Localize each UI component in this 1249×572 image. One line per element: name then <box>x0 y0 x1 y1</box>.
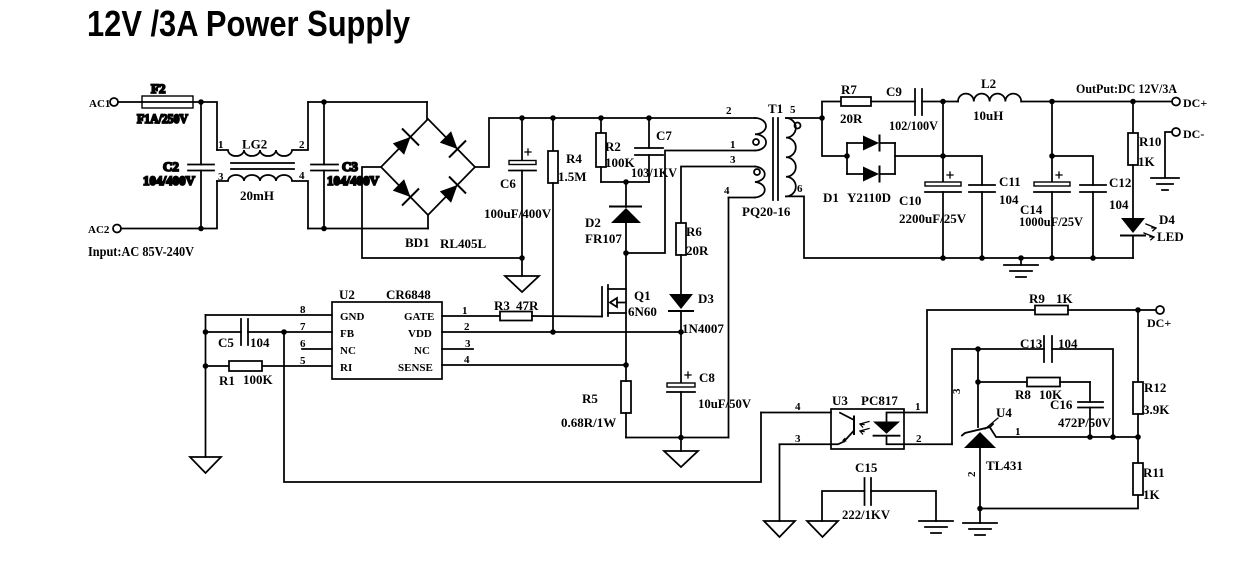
ground secondary under DC- <box>1151 178 1179 190</box>
svg-text:R8: R8 <box>1015 387 1031 402</box>
terminal DC+ feedback <box>1147 306 1171 330</box>
pin 1 opto anode wire <box>904 401 927 413</box>
opto light arrows <box>860 422 869 435</box>
wire FB down and across to opto collector <box>284 332 761 482</box>
pin 4 SENSE wire <box>442 354 626 366</box>
node C14 mid junction <box>1049 153 1055 159</box>
opto-coupler U3 PC817 <box>831 393 904 449</box>
capacitor C9 102/100V <box>886 84 943 133</box>
resistor R8 10K <box>978 378 1090 403</box>
svg-text:R3: R3 <box>494 298 510 313</box>
svg-text:AC2: AC2 <box>88 224 110 236</box>
node C16 bottom <box>1087 434 1093 440</box>
transformer primary winding pins 2-1 <box>726 105 766 151</box>
pin 2 VDD wire <box>442 321 681 333</box>
svg-text:4: 4 <box>299 170 305 182</box>
pin 4 opto collector wire <box>761 401 831 413</box>
svg-text:T1: T1 <box>768 101 783 116</box>
node C14 bottom <box>1049 255 1055 261</box>
svg-text:C10: C10 <box>899 193 921 208</box>
capacitor C10 2200uF/25V electrolytic <box>899 172 967 258</box>
capacitor C15 222/1KV Y-cap <box>822 460 936 522</box>
svg-text:R1: R1 <box>219 373 235 388</box>
svg-text:LED: LED <box>1157 229 1184 244</box>
capacitor C8 10uF/50V electrolytic <box>667 332 752 438</box>
capacitor C5 104 <box>206 319 285 350</box>
svg-text:10uF/50V: 10uF/50V <box>698 396 752 411</box>
svg-text:103/1KV: 103/1KV <box>631 165 678 180</box>
capacitor C3 104/400V <box>311 102 380 229</box>
resistor R6 20R <box>676 223 709 294</box>
svg-text:PQ20-16: PQ20-16 <box>742 204 791 219</box>
svg-text:104: 104 <box>1058 336 1078 351</box>
svg-text:RI: RI <box>340 362 352 374</box>
svg-text:1000uF/25V: 1000uF/25V <box>1019 214 1084 229</box>
svg-text:4: 4 <box>795 401 801 413</box>
wire T1 pin4 down to primary ground rail <box>728 198 730 438</box>
svg-text:100K: 100K <box>243 372 274 387</box>
bridge diode top-left <box>393 129 419 155</box>
pin 1 GATE wire with resistor R3 47R <box>442 298 602 321</box>
svg-text:U3: U3 <box>832 393 848 408</box>
svg-text:NC: NC <box>414 345 430 357</box>
svg-text:3.9K: 3.9K <box>1143 402 1170 417</box>
node pin5 junction <box>819 115 825 121</box>
wire TL431 cathode vertical <box>977 349 979 427</box>
node C10 bottom <box>940 255 946 261</box>
svg-text:20R: 20R <box>686 243 709 258</box>
svg-text:C6: C6 <box>500 176 516 191</box>
svg-text:NC: NC <box>340 345 356 357</box>
svg-text:VDD: VDD <box>408 328 432 340</box>
svg-text:3: 3 <box>795 433 801 445</box>
node C8 bottom / primary ground rail <box>678 435 684 441</box>
wire opto cathode up to TL431 cathode line <box>952 349 1044 444</box>
svg-text:R12: R12 <box>1144 380 1166 395</box>
svg-text:C2: C2 <box>163 159 179 174</box>
svg-text:D3: D3 <box>698 291 714 306</box>
svg-text:222/1KV: 222/1KV <box>842 507 891 522</box>
ground primary under C6 <box>505 258 539 292</box>
svg-text:CR6848: CR6848 <box>386 287 431 302</box>
diode D3 1N4007 <box>669 291 724 336</box>
svg-text:20R: 20R <box>840 111 863 126</box>
node rectified/C10/C11 <box>940 153 946 159</box>
choke LG2 20mH top winding pins 1-2 <box>217 102 308 156</box>
wire R5/C8 ground rail <box>626 437 729 439</box>
svg-text:104: 104 <box>1109 197 1129 212</box>
svg-text:12V /3A Power Supply: 12V /3A Power Supply <box>87 3 410 44</box>
capacitor C11 104 <box>943 156 1021 258</box>
diode D1 Y2110D dual rectifier <box>822 118 943 205</box>
svg-text:1K: 1K <box>1056 291 1074 306</box>
capacitor C12 104 <box>1052 156 1131 258</box>
resistor R1 100K <box>206 361 274 388</box>
node R4 top <box>550 115 556 121</box>
pin 5 RI wire <box>262 355 332 367</box>
ground secondary under TL431 <box>963 509 997 536</box>
svg-text:RL405L: RL405L <box>440 236 487 251</box>
opto LED <box>873 413 904 445</box>
svg-text:C8: C8 <box>699 370 715 385</box>
ground primary under C15 left <box>807 521 838 537</box>
svg-text:R4: R4 <box>566 151 582 166</box>
wire TL431 anode down <box>979 448 981 509</box>
wire AC2 to C2 bottom <box>121 228 201 230</box>
wire snubber bottom joining R2 and C7 <box>601 181 649 183</box>
node C7 top <box>646 115 652 121</box>
terminal AC1 <box>89 98 118 110</box>
svg-text:104/400V: 104/400V <box>327 173 380 188</box>
svg-text:C13: C13 <box>1020 336 1043 351</box>
wire AC1 to fuse <box>118 101 142 103</box>
terminal AC2 <box>88 224 121 236</box>
svg-text:5: 5 <box>790 104 796 116</box>
svg-text:4: 4 <box>464 354 470 366</box>
node C11 bottom <box>979 255 985 261</box>
svg-text:R5: R5 <box>582 391 598 406</box>
node TL431 anode rail <box>977 506 983 512</box>
resistor R7 20R <box>822 82 915 126</box>
node fuse/C2 junction <box>198 99 204 105</box>
ground primary under opto pin3 <box>764 444 795 537</box>
opto phototransistor <box>831 413 854 445</box>
ground secondary under C15 right <box>919 521 953 533</box>
svg-text:R2: R2 <box>605 139 621 154</box>
svg-text:C12: C12 <box>1109 175 1131 190</box>
svg-text:Q1: Q1 <box>634 288 651 303</box>
svg-text:104: 104 <box>999 192 1019 207</box>
svg-text:C11: C11 <box>999 174 1021 189</box>
node C3 top <box>321 99 327 105</box>
svg-text:6: 6 <box>797 183 803 195</box>
svg-text:0.68R/1W: 0.68R/1W <box>561 415 616 430</box>
shunt regulator U4 TL431 <box>951 388 1138 477</box>
svg-text:1: 1 <box>462 305 468 317</box>
capacitor C7 103/1KV <box>631 118 678 182</box>
capacitor C6 100uF/400V electrolytic <box>484 118 552 258</box>
svg-text:2: 2 <box>299 139 305 151</box>
svg-text:D2: D2 <box>585 215 601 230</box>
svg-text:100uF/400V: 100uF/400V <box>484 206 552 221</box>
svg-text:C7: C7 <box>656 128 672 143</box>
svg-text:Input:AC 85V-240V: Input:AC 85V-240V <box>88 245 194 260</box>
svg-text:R7: R7 <box>841 82 857 97</box>
svg-text:U2: U2 <box>339 287 355 302</box>
svg-text:10uH: 10uH <box>973 108 1003 123</box>
svg-text:4: 4 <box>724 185 730 197</box>
svg-text:1: 1 <box>1015 426 1021 438</box>
wire rectified node vertical <box>942 102 944 183</box>
ground secondary main <box>1004 258 1038 277</box>
svg-text:104: 104 <box>250 335 270 350</box>
pin 8 GND wire <box>206 304 333 316</box>
svg-text:R11: R11 <box>1143 465 1165 480</box>
node divider REF <box>1135 434 1141 440</box>
svg-text:1: 1 <box>730 139 736 151</box>
choke LG2 bottom winding pins 3-4 <box>217 170 308 229</box>
resistor R2 100K <box>596 118 636 182</box>
svg-text:D1: D1 <box>823 190 839 205</box>
svg-text:7: 7 <box>300 321 306 333</box>
wire output top rail <box>1052 101 1172 103</box>
node C13 right bottom <box>1110 434 1116 440</box>
svg-text:PC817: PC817 <box>861 393 898 408</box>
wire GND net vertical <box>205 315 207 457</box>
transformer T1 PQ20-16 <box>742 101 791 219</box>
wire choke pin4 to AC bottom rail <box>308 228 428 230</box>
node R4 bottom on VDD <box>550 329 556 335</box>
svg-text:DC-: DC- <box>1183 127 1204 141</box>
wire secondary return rail <box>786 196 1133 258</box>
svg-text:GND: GND <box>340 311 365 323</box>
wire anode rail to R11 bottom <box>980 495 1138 509</box>
wire choke pin2 to AC top rail <box>308 101 427 103</box>
node R1 left <box>203 363 209 369</box>
svg-text:AC1: AC1 <box>89 98 110 110</box>
diode D2 FR107 <box>585 182 641 253</box>
node R12 top <box>1135 307 1141 313</box>
terminal DC+ output <box>1172 96 1207 110</box>
fuse F2 F1A/250V <box>137 81 201 126</box>
svg-text:C16: C16 <box>1050 397 1073 412</box>
node C9/L2 junction <box>940 99 946 105</box>
wire T1 pin5 to snubber node <box>786 117 822 119</box>
node snubber to D2 <box>623 179 629 185</box>
svg-text:F2: F2 <box>151 81 165 96</box>
resistor R4 1.5M <box>548 118 587 332</box>
transformer aux winding pins 3-4 <box>724 154 765 198</box>
svg-text:20mH: 20mH <box>240 188 274 203</box>
node C3 bottom <box>321 226 327 232</box>
node FB junction <box>281 329 287 335</box>
svg-text:R6: R6 <box>686 224 702 239</box>
pin 3 NC stub <box>442 338 473 350</box>
svg-text:C3: C3 <box>342 159 358 174</box>
svg-text:1K: 1K <box>1138 154 1156 169</box>
svg-text:8: 8 <box>300 304 306 316</box>
svg-text:3: 3 <box>730 154 736 166</box>
svg-text:C9: C9 <box>886 84 902 99</box>
svg-text:D4: D4 <box>1159 212 1175 227</box>
svg-text:3: 3 <box>218 171 224 183</box>
pin 3 opto emitter wire <box>780 433 832 445</box>
svg-text:2: 2 <box>966 471 978 477</box>
svg-text:3: 3 <box>951 388 963 394</box>
capacitor C2 104/400V <box>143 102 214 229</box>
node C12 bottom <box>1090 255 1096 261</box>
pin 7 FB wire <box>284 321 332 333</box>
node D2 anode / Q1 drain <box>623 250 629 256</box>
pin 6 NC stub <box>300 338 332 350</box>
bridge rectifier BD1 RL405L <box>381 102 487 251</box>
bridge diode bottom-right <box>440 177 466 203</box>
svg-text:1.5M: 1.5M <box>558 169 587 184</box>
svg-text:BD1: BD1 <box>405 235 430 250</box>
svg-text:2: 2 <box>464 321 470 333</box>
svg-text:472P/50V: 472P/50V <box>1058 415 1112 430</box>
wire T1 pin3 to R6 <box>681 167 755 224</box>
svg-text:1: 1 <box>915 401 921 413</box>
svg-text:3: 3 <box>465 338 471 350</box>
node L2 out / C14 top <box>1049 99 1055 105</box>
ground primary under C8 <box>664 438 698 468</box>
svg-text:C15: C15 <box>855 460 878 475</box>
svg-text:DC+: DC+ <box>1147 316 1171 330</box>
svg-text:R10: R10 <box>1139 134 1161 149</box>
node D1 input junction <box>844 153 850 159</box>
node ground tap <box>1018 255 1024 261</box>
node C2 bottom junction <box>198 226 204 232</box>
svg-text:1K: 1K <box>1143 487 1161 502</box>
resistor R12 3.9K <box>1133 310 1170 437</box>
node VDD / D3 cathode / C8 top <box>678 329 684 335</box>
svg-text:6N60: 6N60 <box>628 304 657 319</box>
capacitor C16 472P/50V <box>1050 382 1112 437</box>
bridge diode top-right <box>440 131 466 157</box>
ground primary under R1/C5 <box>190 457 221 473</box>
node R10 top <box>1130 99 1136 105</box>
svg-text:2: 2 <box>916 433 922 445</box>
svg-text:1N4007: 1N4007 <box>682 321 724 336</box>
svg-text:6: 6 <box>300 338 306 350</box>
svg-text:GATE: GATE <box>404 311 434 323</box>
svg-text:2: 2 <box>726 105 732 117</box>
svg-text:C5: C5 <box>218 335 234 350</box>
svg-text:OutPut:DC 12V/3A: OutPut:DC 12V/3A <box>1076 81 1178 96</box>
svg-text:F1A/250V: F1A/250V <box>137 111 189 126</box>
capacitor C13 104 <box>1020 336 1113 437</box>
node TL431 cathode top <box>975 346 981 352</box>
svg-text:Y2110D: Y2110D <box>847 190 891 205</box>
resistor R9 1K feedback supply <box>927 291 1156 413</box>
resistor R11 1K <box>1133 437 1165 502</box>
node C6 bottom <box>519 255 525 261</box>
node R2 top <box>598 115 604 121</box>
svg-text:1: 1 <box>218 139 224 151</box>
svg-text:47R: 47R <box>516 298 539 313</box>
svg-text:FR107: FR107 <box>585 231 622 246</box>
svg-text:L2: L2 <box>981 76 996 91</box>
svg-text:DC+: DC+ <box>1183 96 1207 110</box>
wire top rail to choke pin1 <box>201 102 217 150</box>
svg-text:FB: FB <box>340 328 355 340</box>
wire drain node to T1 pin1 <box>626 151 755 254</box>
transistor Q1 6N60 MOSFET <box>602 253 657 365</box>
node sense / Q1 source / R5 top <box>623 362 629 368</box>
LED D4 <box>1121 212 1184 258</box>
svg-text:R9: R9 <box>1029 291 1045 306</box>
resistor R10 1K <box>1128 102 1161 219</box>
pin 2 opto cathode wire <box>904 433 952 445</box>
svg-text:5: 5 <box>300 355 306 367</box>
svg-text:2200uF/25V: 2200uF/25V <box>899 211 967 226</box>
choke LG2 core lines <box>231 163 294 169</box>
wire bridge positive to bulk rail <box>475 118 755 167</box>
node C6 top <box>519 115 525 121</box>
svg-text:102/100V: 102/100V <box>889 118 939 133</box>
bridge diode bottom-left <box>393 179 419 205</box>
capacitor C14 1000uF/25V electrolytic <box>1019 102 1084 259</box>
wire bridge negative to primary return rail <box>362 167 522 258</box>
terminal DC- output <box>1165 127 1204 177</box>
node R8 left <box>975 379 981 385</box>
transformer secondary winding pins 5-6 <box>786 104 803 196</box>
inductor L2 10uH <box>943 76 1052 123</box>
svg-text:LG2: LG2 <box>242 137 267 152</box>
node C5 left <box>203 329 209 335</box>
op-amp U2 CR6848 PWM IC <box>332 287 442 379</box>
svg-text:TL431: TL431 <box>986 458 1023 473</box>
resistor R5 0.68R/1W <box>561 365 631 438</box>
svg-text:104/400V: 104/400V <box>143 173 196 188</box>
svg-text:SENSE: SENSE <box>398 362 433 374</box>
wire bottom rail to choke pin3 <box>201 181 217 229</box>
